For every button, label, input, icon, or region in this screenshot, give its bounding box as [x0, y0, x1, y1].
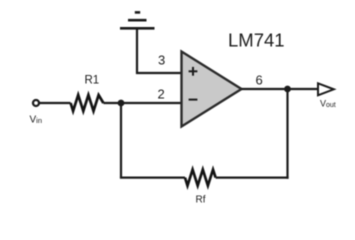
svg-text:3: 3: [158, 53, 165, 68]
svg-text:Rf: Rf: [196, 195, 206, 206]
svg-text:R1: R1: [85, 75, 100, 87]
wire: node A down to feedback path: [120, 103, 122, 178]
op-amp inverting input marker (-): [189, 99, 198, 101]
svg-text:6: 6: [256, 73, 263, 88]
node A (inverting input junction): [118, 100, 125, 107]
wire: ground down and right to op-amp pin 3: [137, 28, 182, 73]
op-amp U1 (LM741): [182, 52, 242, 127]
wire: R1 through node A to op-amp pin 2: [103, 102, 181, 104]
resistor Rf: [185, 170, 216, 186]
wire: Rf to right vertical: [216, 177, 289, 179]
resistor R1: [71, 95, 104, 111]
svg-text:2: 2: [158, 87, 165, 102]
svg-text:LM741: LM741: [228, 29, 285, 50]
wire: Vin terminal to R1: [39, 102, 70, 104]
output node junction: [284, 86, 291, 93]
wire: right vertical up to output node: [286, 89, 288, 179]
svg-text:Vin: Vin: [30, 115, 43, 126]
wire: op-amp output pin 6 to Vout port: [242, 88, 319, 90]
Vout port symbol: [318, 83, 334, 95]
op-amp non-inverting input marker (+): [189, 67, 198, 76]
wire: bottom left segment to Rf: [120, 177, 185, 179]
input terminal (Vin): [33, 100, 39, 106]
ground: [120, 12, 155, 28]
